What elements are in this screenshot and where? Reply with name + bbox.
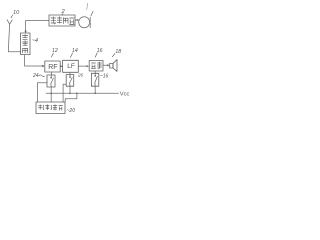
svg-text:LF: LF [67, 63, 75, 70]
svg-text:~16: ~16 [100, 73, 109, 79]
svg-text:RF: RF [48, 64, 57, 71]
svg-text:16: 16 [97, 48, 103, 54]
svg-text:~4: ~4 [32, 38, 38, 44]
svg-text:24: 24 [32, 73, 39, 79]
svg-text:10: 10 [13, 10, 20, 16]
svg-text:18: 18 [115, 49, 121, 55]
svg-text:12: 12 [52, 48, 58, 54]
svg-text:~20: ~20 [67, 108, 76, 114]
svg-text:2: 2 [61, 9, 66, 15]
svg-text:26: 26 [77, 73, 84, 78]
svg-text:Vcc: Vcc [120, 91, 130, 97]
svg-text:14: 14 [72, 48, 78, 54]
